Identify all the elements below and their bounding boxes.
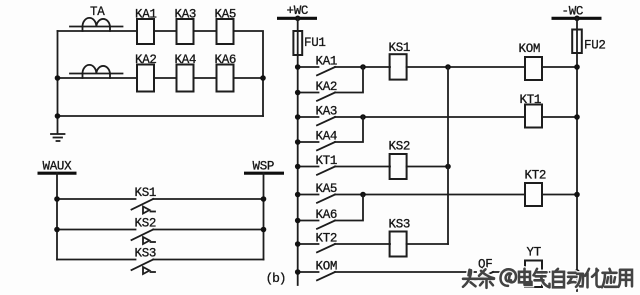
label KS3 coil	[389, 218, 411, 232]
relay coil KA4	[177, 65, 194, 92]
label TA	[90, 5, 105, 19]
label KA5	[215, 8, 237, 22]
svg-text:KS1: KS1	[389, 41, 411, 55]
right rail vertical	[576, 18, 578, 291]
junction KS1 left	[54, 196, 60, 202]
svg-text:-WC: -WC	[562, 5, 584, 19]
junction row2 left	[55, 75, 61, 81]
junction rail KA1	[295, 64, 301, 70]
wire row2 left	[58, 77, 138, 79]
fuse FU1	[293, 31, 302, 55]
label KA3	[175, 8, 197, 22]
label -WC	[562, 5, 584, 19]
wire row1 right to right vertical	[234, 31, 264, 116]
label KA1	[135, 8, 157, 22]
junction -WC	[574, 15, 580, 21]
label WSP	[253, 160, 275, 174]
junction rail KT2 row	[574, 192, 580, 198]
junction KA1-KA2 tie	[360, 64, 366, 70]
label KS1 coil	[389, 41, 411, 55]
relay coil KS3	[390, 232, 407, 257]
label KA6 contact	[316, 208, 338, 222]
junction rail KOM row	[574, 64, 580, 70]
relay coil KT1	[525, 105, 542, 128]
junction KS2 left	[54, 227, 60, 233]
contact KOM	[298, 272, 476, 280]
contact KA4	[298, 117, 363, 150]
label (b)	[266, 271, 286, 286]
svg-text:WSP: WSP	[253, 160, 275, 174]
wire KS3 out	[407, 243, 448, 245]
contact KS2	[57, 230, 264, 245]
electromagnet coil YT	[525, 261, 542, 288]
wire WAUX drop	[56, 173, 58, 259]
contact KA1	[298, 67, 390, 75]
junction rail KT1 row	[574, 114, 580, 120]
junction rail KA6	[295, 218, 301, 224]
junction rail KA3	[295, 114, 301, 120]
contact KT1	[298, 167, 390, 175]
label KOM contact	[316, 260, 338, 274]
svg-text:KS3: KS3	[135, 247, 157, 261]
contact KS1	[57, 199, 264, 214]
label KS1 contact	[135, 186, 157, 200]
wire row1 left	[58, 30, 138, 32]
label KA1 contact	[316, 55, 338, 69]
label FU2	[584, 39, 606, 53]
relay coil KA3	[177, 19, 194, 44]
svg-text:KT2: KT2	[525, 169, 547, 183]
svg-text:KOM: KOM	[519, 42, 541, 56]
contact KS3	[57, 260, 264, 275]
relay coil KA6	[217, 65, 234, 92]
current transformer TA winding 1	[70, 18, 123, 31]
label YT coil	[527, 246, 542, 260]
bus +WC	[277, 17, 317, 20]
label +WC	[287, 4, 309, 18]
relay coil KT2	[525, 183, 542, 206]
label FU1	[304, 36, 326, 50]
fuse FU2	[572, 30, 582, 54]
left rail vertical	[297, 18, 299, 285]
contact KA5	[298, 195, 525, 203]
wire KOM to rail	[542, 66, 577, 68]
relay coil KA1	[137, 19, 154, 44]
junction row2 right	[260, 75, 266, 81]
junction rail KA4	[295, 139, 301, 145]
junction KS1 right	[261, 196, 267, 202]
bottom return wire	[58, 115, 264, 117]
label QF contact	[478, 258, 492, 272]
label KA6	[215, 53, 237, 67]
wire	[154, 30, 177, 32]
junction KS2 right	[261, 227, 267, 233]
contact KA2	[298, 67, 363, 101]
relay coil KS2	[390, 154, 407, 179]
label KT2 contact	[316, 232, 338, 246]
bus -WC	[552, 17, 602, 20]
svg-text:KS2: KS2	[389, 140, 411, 154]
label KA2	[135, 53, 157, 67]
junction rail KT1	[295, 164, 301, 170]
svg-text:KS1: KS1	[135, 186, 157, 200]
KS collector column	[447, 67, 449, 244]
wire	[194, 77, 217, 79]
ground	[51, 134, 65, 141]
svg-text:YT: YT	[527, 246, 542, 260]
junction +WC	[295, 15, 301, 21]
label KS2 coil	[389, 140, 411, 154]
label KT2 coil	[525, 169, 547, 183]
svg-text:FU1: FU1	[304, 36, 326, 50]
left vertical wire	[57, 31, 59, 134]
label KS3 contact	[135, 247, 157, 261]
contact KA6	[298, 195, 363, 229]
wire KT1 to rail	[542, 116, 577, 118]
label WAUX	[43, 160, 73, 174]
wire KS2 out	[407, 166, 448, 168]
svg-text:(b): (b)	[266, 271, 286, 286]
junction bottom left	[55, 113, 61, 119]
wire row2 right	[234, 77, 264, 79]
junction rail KA5	[295, 192, 301, 198]
wire KS1 out	[407, 66, 525, 68]
label KA2 contact	[316, 80, 338, 94]
label KA3 contact	[316, 105, 338, 119]
bus WSP	[244, 172, 284, 175]
svg-text:KS3: KS3	[389, 218, 411, 232]
junction rail YT row	[574, 269, 580, 275]
label KS2 contact	[135, 217, 157, 231]
contact QF	[475, 272, 525, 280]
wire WSP drop	[263, 173, 265, 259]
bus WAUX	[38, 172, 77, 175]
junction rail KT2	[295, 241, 301, 247]
junction KA3-KA4 tie	[360, 114, 366, 120]
relay coil KA5	[217, 19, 234, 44]
wire YT to rail	[542, 271, 577, 273]
relay coil KOM	[525, 57, 542, 80]
label KA4 contact	[316, 130, 338, 144]
label KA4	[175, 53, 197, 67]
contact KT2	[298, 244, 390, 252]
svg-text:TA: TA	[90, 5, 105, 19]
label KA5 contact	[316, 182, 338, 196]
junction rail KOM	[295, 269, 301, 275]
svg-text:FU2: FU2	[584, 39, 606, 53]
junction rail KA2	[295, 90, 301, 96]
current transformer TA winding 2	[70, 65, 123, 78]
label KT1 contact	[316, 154, 338, 168]
junction KS column top	[445, 64, 451, 70]
wire	[154, 77, 177, 79]
junction KS column mid	[445, 164, 451, 170]
label KT1 coil	[520, 93, 542, 107]
relay coil KS1	[390, 54, 407, 79]
contact KA3	[298, 117, 525, 125]
svg-text:WAUX: WAUX	[43, 160, 73, 174]
wire KT2 to rail	[542, 194, 577, 196]
label KOM coil	[519, 42, 541, 56]
wire	[194, 30, 217, 32]
junction KA5-KA6 tie	[360, 192, 366, 198]
svg-text:KS2: KS2	[135, 217, 157, 231]
relay coil KA2	[137, 65, 154, 92]
